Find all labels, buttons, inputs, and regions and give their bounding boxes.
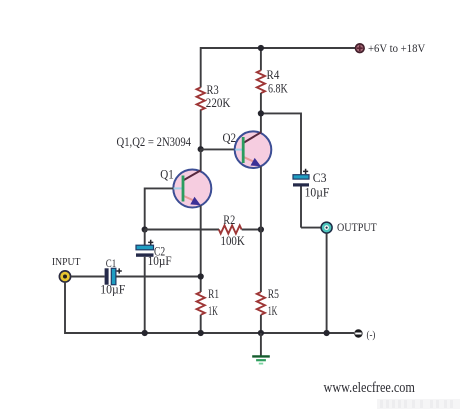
wire R4 branch top [260, 48, 262, 71]
capacitor C1 [105, 268, 122, 284]
node R2/emitter junction [258, 226, 264, 232]
wire Q1 emitter down [200, 206, 202, 293]
svg-text:Q1,Q2 = 2N3094: Q1,Q2 = 2N3094 [117, 135, 192, 149]
resistor R1 [197, 292, 205, 315]
wire Q2 emitter down to R5 [260, 167, 262, 293]
wire junction A down to Q1 collector [200, 149, 202, 171]
wire R4 bottom to Q2 collector [260, 93, 262, 133]
svg-text:+6V to +18V: +6V to +18V [368, 41, 425, 55]
svg-text:1K: 1K [268, 303, 278, 318]
output terminal [321, 222, 332, 233]
transistor Q1 [173, 170, 211, 208]
terminal (-) [354, 329, 362, 337]
transistor Q2 [235, 131, 272, 168]
node input/emitter junction [198, 273, 204, 279]
node top rail R4 [258, 45, 264, 51]
node B junction [142, 226, 148, 232]
svg-text:10µF: 10µF [100, 282, 125, 297]
node R1/rail [198, 330, 204, 336]
node output/rail [324, 330, 330, 336]
svg-text:www.elecfree.com: www.elecfree.com [324, 380, 416, 396]
svg-text:6.8K: 6.8K [268, 81, 288, 96]
node R4/C3 junction [258, 110, 264, 116]
svg-text:Q2: Q2 [223, 130, 237, 145]
svg-text:(-): (-) [367, 329, 376, 341]
wire node B to R2 [145, 229, 219, 231]
input terminal [59, 271, 70, 282]
wire R5 bottom [260, 315, 262, 333]
wire top rail [201, 48, 356, 88]
resistor R2 [219, 225, 242, 233]
svg-text:C1: C1 [106, 256, 116, 270]
svg-text:10µF: 10µF [305, 185, 330, 200]
resistor R4 [257, 70, 265, 93]
wire input to C1 [71, 276, 105, 278]
node R5/ground/rail [258, 330, 264, 336]
svg-text:INPUT: INPUT [52, 257, 81, 268]
svg-text:C3: C3 [313, 170, 327, 185]
wire C3 branch from R4 junction [261, 113, 301, 174]
svg-text:10µF: 10µF [148, 253, 172, 268]
wire output down to rail [326, 233, 328, 333]
svg-text:R2: R2 [223, 212, 235, 227]
watermark [377, 399, 460, 409]
wire C1 to emitter junction [116, 276, 201, 278]
power terminal +V [356, 44, 365, 53]
wire bottom rail [65, 282, 354, 333]
wire R2 right to Q2 emitter line [242, 229, 261, 231]
svg-text:220K: 220K [206, 95, 231, 110]
resistor R3 [197, 87, 205, 110]
svg-text:R1: R1 [208, 286, 219, 301]
svg-text:Q1: Q1 [160, 167, 174, 182]
svg-text:R5: R5 [268, 286, 279, 301]
svg-text:100K: 100K [221, 233, 246, 248]
wire C3 bottom to output [301, 227, 321, 229]
wire R3 bottom to junction A [200, 110, 202, 150]
wire Q1 base left [145, 188, 174, 229]
resistor R5 [257, 292, 265, 315]
capacitor C2 [136, 230, 154, 334]
wire Q2 base [201, 148, 235, 150]
wire R1 bottom [200, 315, 202, 333]
capacitor C3 [293, 169, 309, 228]
svg-text:OUTPUT: OUTPUT [337, 222, 377, 234]
ground [252, 333, 270, 364]
node C2/rail [142, 330, 148, 336]
svg-text:1K: 1K [208, 303, 218, 318]
node A junction [198, 146, 204, 152]
